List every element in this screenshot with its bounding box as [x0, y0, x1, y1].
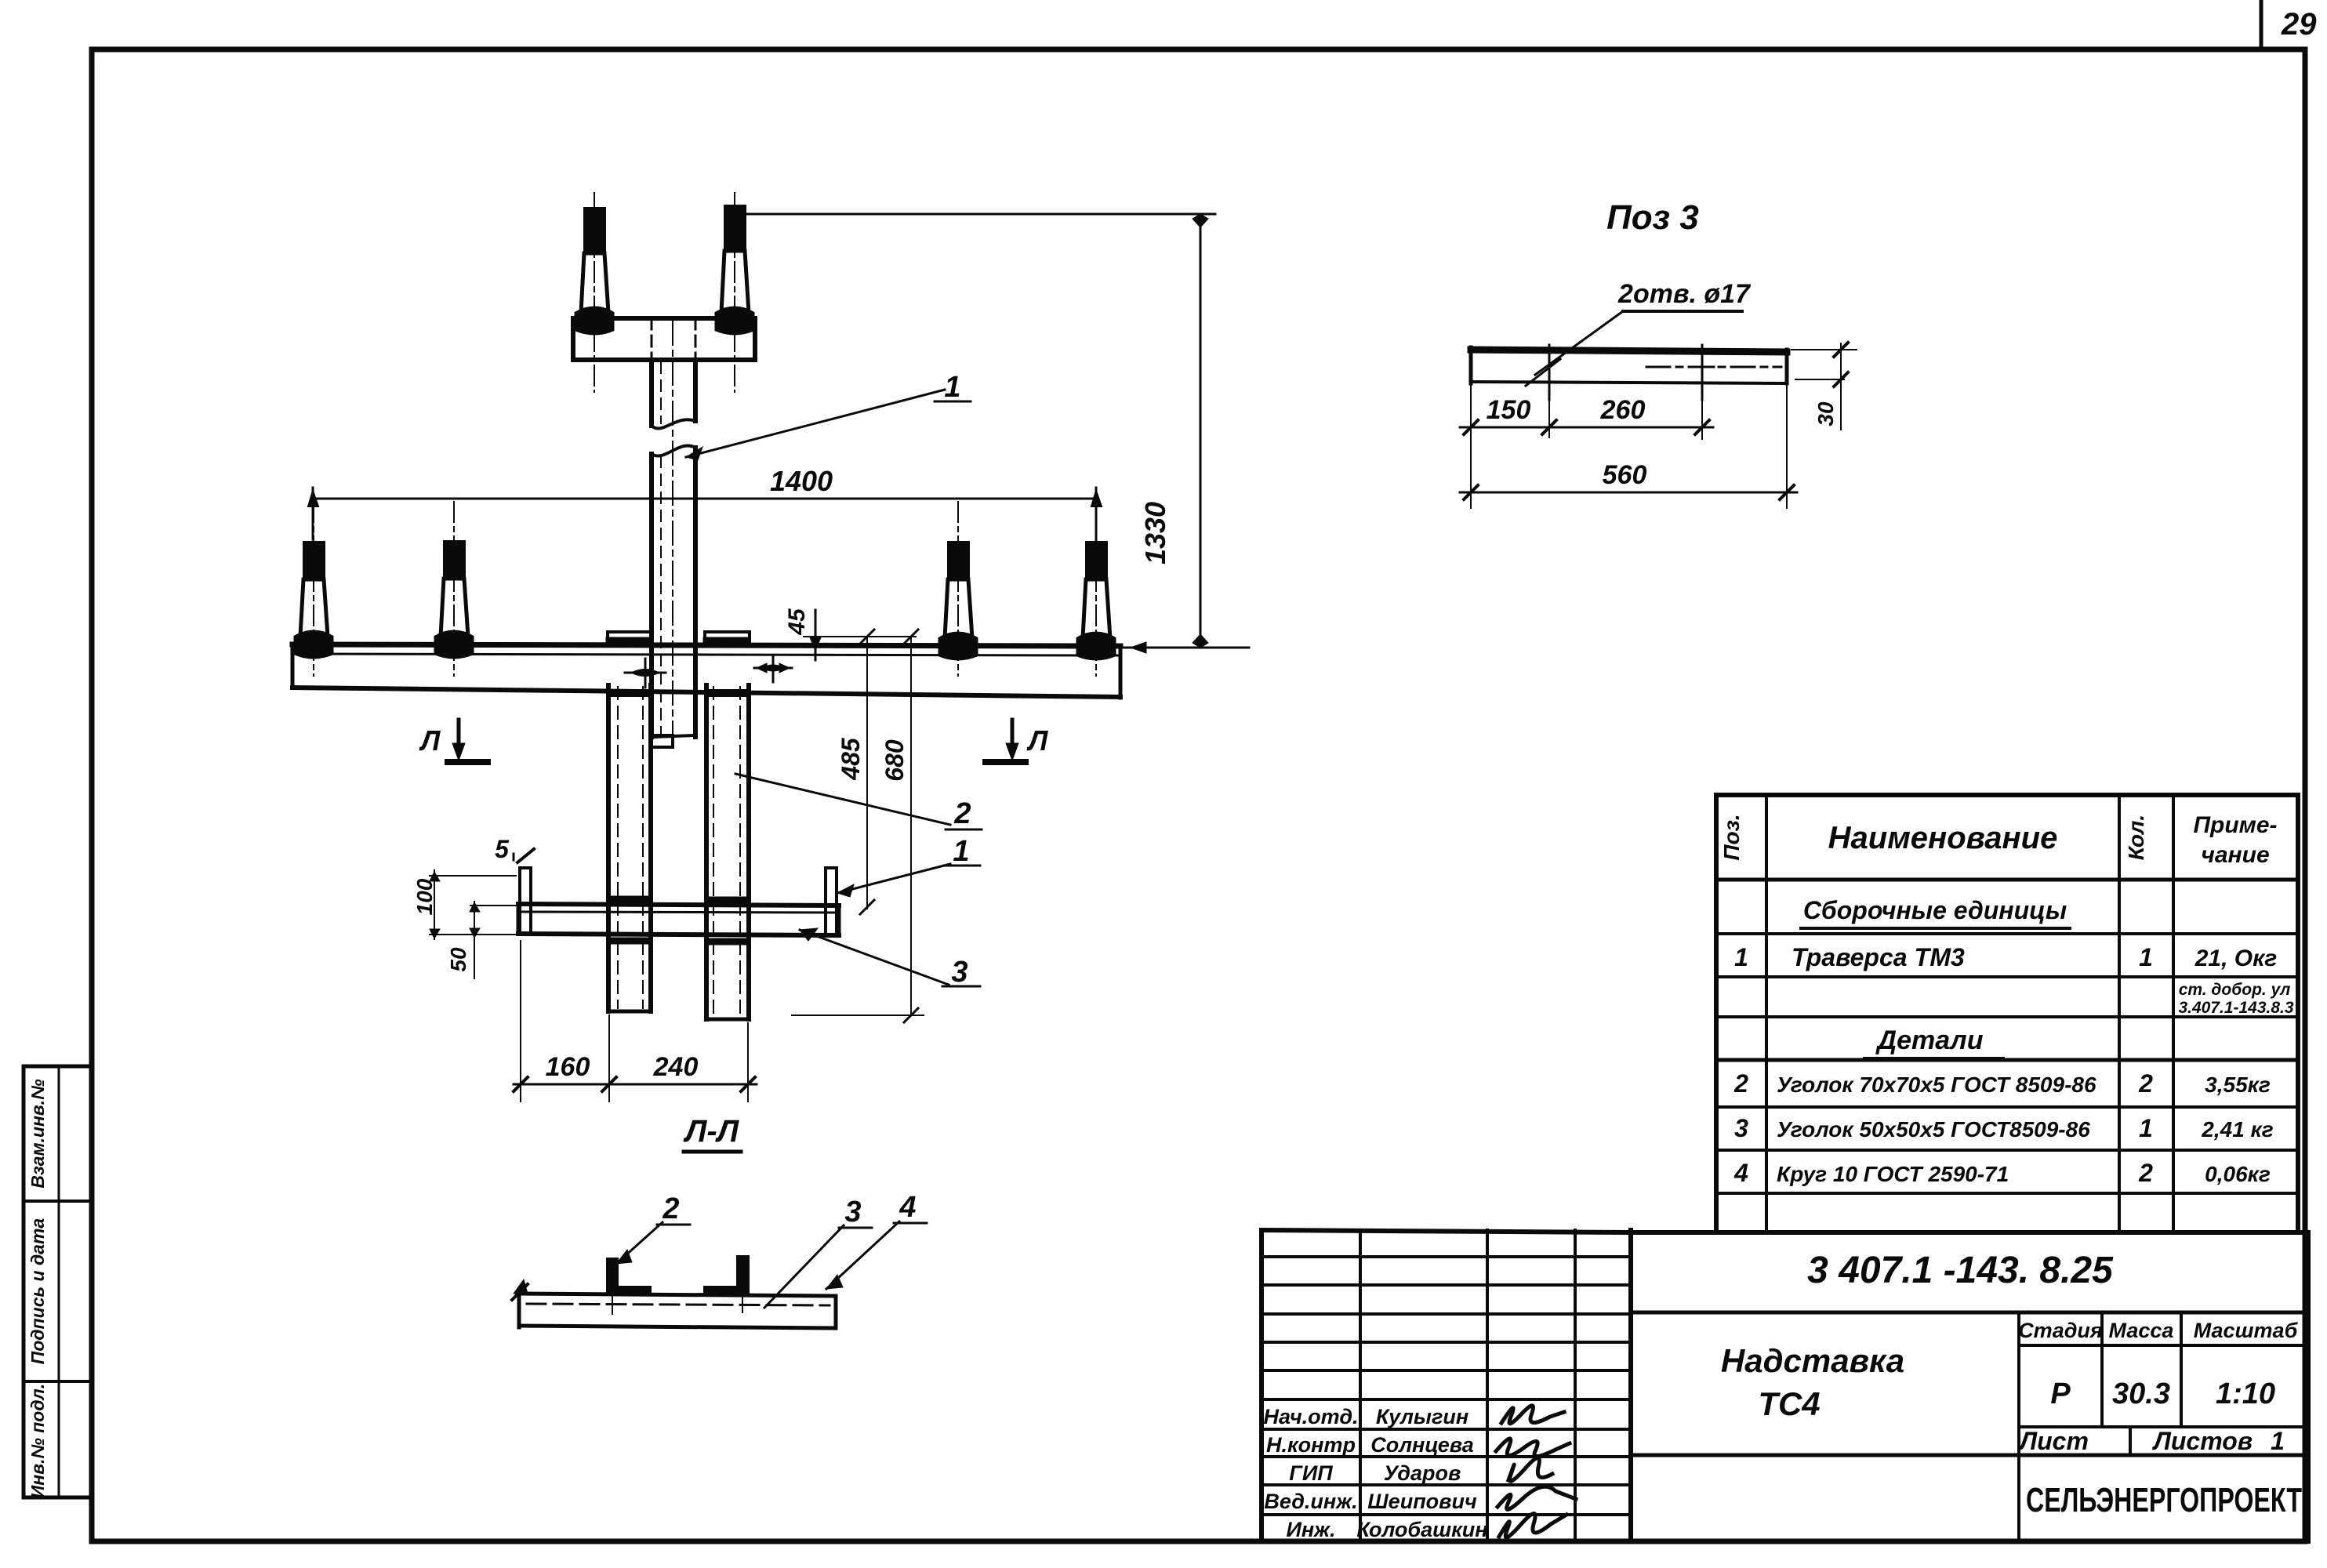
weld serration under beam at right bar: [708, 689, 747, 697]
post centerline: [672, 321, 673, 746]
svg-text:Детали: Детали: [1875, 1025, 1984, 1055]
svg-text:Наименование: Наименование: [1828, 821, 2058, 855]
svg-text:2,41 кг: 2,41 кг: [2201, 1117, 2273, 1142]
svg-text:Вед.инж.: Вед.инж.: [1264, 1490, 1357, 1513]
svg-text:1: 1: [944, 371, 960, 404]
pin item 4 right: [824, 868, 827, 933]
post bottom with notch: [652, 735, 695, 737]
svg-text:Шеипович: Шеипович: [1367, 1490, 1477, 1513]
section leader 2: [616, 1222, 663, 1264]
svg-text:Траверса ТМ3: Траверса ТМ3: [1792, 943, 1965, 971]
svg-text:Уголок 70х70х5 ГОСТ 8509-86: Уголок 70х70х5 ГОСТ 8509-86: [1777, 1073, 2096, 1097]
svg-text:4: 4: [898, 1191, 916, 1224]
cross angle item 3: [518, 904, 839, 906]
dimension 100: [430, 875, 516, 877]
post inner hidden edge: [660, 362, 662, 423]
top bolt right: [716, 193, 753, 392]
svg-text:2: 2: [2138, 1159, 2153, 1187]
svg-text:СЕЛЬЭНЕРГОПРОЕКТ: СЕЛЬЭНЕРГОПРОЕКТ: [2026, 1481, 2302, 1519]
section bar left end tick: [512, 1284, 528, 1300]
svg-text:Стадия: Стадия: [2018, 1319, 2103, 1342]
svg-text:Приме-: Приме-: [2193, 812, 2277, 838]
dimension 1400: [313, 498, 1096, 500]
vertical angle bar item 2 left: [606, 685, 611, 1011]
svg-text:30.3: 30.3: [2112, 1377, 2170, 1410]
svg-text:2: 2: [953, 797, 971, 830]
svg-text:1: 1: [2271, 1427, 2285, 1455]
svg-text:Лист: Лист: [2018, 1427, 2089, 1455]
svg-text:Кол.: Кол.: [2124, 815, 2148, 860]
svg-text:50: 50: [446, 947, 470, 972]
svg-text:3.407.1-143.8.3: 3.407.1-143.8.3: [2178, 999, 2293, 1017]
svg-text:4: 4: [1733, 1159, 1748, 1187]
svg-text:2: 2: [1733, 1069, 1748, 1098]
dimension 45: [804, 636, 916, 637]
svg-text:Поз.: Поз.: [1719, 814, 1744, 860]
svg-text:Н.контр: Н.контр: [1266, 1433, 1356, 1457]
svg-text:150: 150: [1487, 395, 1531, 425]
weld serration at cross angle top on bars: [610, 896, 649, 903]
svg-text:Колобашкин: Колобашкин: [1356, 1518, 1487, 1541]
svg-text:240: 240: [653, 1052, 699, 1082]
svg-text:1400: 1400: [770, 465, 833, 497]
section leader 3: [764, 1225, 844, 1308]
beam bolt 3: [939, 502, 977, 676]
detail bar item 3: [1471, 350, 1787, 352]
post lower segment: [649, 454, 654, 737]
svg-text:Уголок 50х50х5 ГОСТ8509-86: Уголок 50х50х5 ГОСТ8509-86: [1777, 1117, 2090, 1142]
beam bolt 2: [435, 502, 473, 676]
svg-text:1: 1: [1734, 943, 1748, 971]
title block right part grid: [1631, 1232, 2308, 1541]
dimension 1330: [745, 213, 1215, 216]
svg-text:1: 1: [2139, 1114, 2153, 1142]
svg-text:680: 680: [880, 739, 909, 782]
svg-text:2: 2: [662, 1192, 679, 1225]
svg-text:Инж.: Инж.: [1286, 1518, 1335, 1541]
left angle section (item 2): [607, 1258, 618, 1294]
svg-text:3,55кг: 3,55кг: [2205, 1073, 2271, 1097]
beam (traverse TM3, item 1) top chord: [292, 644, 1120, 646]
top plate: [573, 318, 755, 360]
svg-text:ТС4: ТС4: [1758, 1385, 1820, 1422]
svg-text:3: 3: [1734, 1114, 1748, 1142]
leader 1 (pin at cross angle): [837, 864, 950, 893]
svg-text:1:10: 1:10: [2216, 1377, 2275, 1410]
dimension 150 / 260: [1470, 383, 1472, 508]
svg-text:Нач.отд.: Нач.отд.: [1263, 1405, 1358, 1428]
svg-text:3: 3: [844, 1196, 861, 1229]
leader 1 (post): [686, 390, 945, 457]
hole center tick 1: [1548, 345, 1551, 400]
svg-text:30: 30: [1813, 401, 1838, 426]
svg-text:485: 485: [837, 737, 865, 781]
beam bolt 1: [295, 502, 332, 676]
svg-text:Л: Л: [1026, 724, 1049, 757]
hole center mark on beam (left): [625, 672, 666, 674]
dimension 30 (thickness): [1792, 349, 1857, 350]
page number box divider: [2260, 0, 2263, 49]
dimension 160 and 240: [520, 941, 521, 1102]
post hidden edges in plate (dashed): [651, 318, 653, 360]
hole center tick 2: [1701, 345, 1704, 400]
left stamp column frame: [24, 1066, 92, 1497]
svg-text:Сборочные единицы: Сборочные единицы: [1803, 896, 2067, 924]
svg-text:100: 100: [412, 878, 437, 915]
svg-text:Круг 10 ГОСТ 2590-71: Круг 10 ГОСТ 2590-71: [1777, 1162, 2009, 1186]
leader 3 (cross angle): [800, 930, 949, 985]
svg-text:560: 560: [1603, 460, 1647, 490]
svg-text:3 407.1 -143. 8.25: 3 407.1 -143. 8.25: [1807, 1250, 2114, 1291]
pin item 4 left: [518, 868, 521, 933]
svg-text:Солнцева: Солнцева: [1370, 1433, 1474, 1457]
svg-text:ГИП: ГИП: [1289, 1461, 1333, 1485]
svg-text:21, Окг: 21, Окг: [2194, 946, 2278, 971]
svg-text:29: 29: [2281, 7, 2317, 42]
vertical angle bar item 2 right: [704, 685, 709, 1019]
svg-text:45: 45: [784, 608, 810, 636]
svg-text:Взам.инв.№: Взам.инв.№: [27, 1079, 48, 1188]
leader 2 (vertical angle): [735, 774, 950, 825]
dimension 485: [866, 637, 868, 909]
svg-text:Л: Л: [419, 724, 441, 757]
svg-text:0,06кг: 0,06кг: [2205, 1162, 2271, 1186]
svg-text:ст. добор. ул: ст. добор. ул: [2179, 981, 2291, 999]
post (stand), upper segment with break: [649, 360, 654, 426]
svg-text:Масса: Масса: [2109, 1319, 2174, 1342]
svg-text:Поз 3: Поз 3: [1606, 198, 1699, 237]
dimension 50: [470, 905, 518, 906]
right angle section (item 2): [737, 1256, 749, 1294]
svg-text:260: 260: [1600, 395, 1646, 425]
pad left (top of angle item 2): [608, 632, 651, 644]
svg-text:5: 5: [495, 835, 510, 863]
weld serration under beam at left bar: [610, 689, 649, 697]
section leader 4: [826, 1221, 899, 1289]
svg-text:2отв. ø17: 2отв. ø17: [1617, 279, 1752, 309]
svg-text:Инв.№ подл.: Инв.№ подл.: [27, 1384, 48, 1498]
dimension 560: [1786, 383, 1788, 508]
parts table grid: [1716, 795, 2298, 1232]
svg-text:Р: Р: [2050, 1377, 2071, 1410]
svg-text:Масштаб: Масштаб: [2194, 1319, 2299, 1342]
svg-text:Кулыгин: Кулыгин: [1376, 1405, 1468, 1428]
svg-text:Ударов: Ударов: [1384, 1461, 1461, 1485]
detail centerline: [1646, 366, 1781, 368]
dimension 680: [910, 637, 912, 1015]
title block signature grid: [1262, 1230, 1631, 1541]
hole center mark on beam (right): [754, 667, 792, 670]
svg-text:чание: чание: [2201, 842, 2269, 868]
svg-text:3: 3: [951, 956, 967, 989]
section bar (item 3 angle, horizontal leg): [519, 1294, 836, 1296]
svg-text:Подпись и дата: Подпись и дата: [27, 1218, 48, 1365]
weld serration at cross angle bottom on bars: [610, 938, 649, 945]
svg-text:1: 1: [2139, 943, 2153, 971]
svg-text:1330: 1330: [1139, 502, 1171, 564]
beam bolt 4: [1077, 502, 1115, 676]
top bolt left: [575, 193, 613, 392]
svg-text:Надставка: Надставка: [1721, 1342, 1904, 1379]
svg-text:160: 160: [546, 1052, 590, 1082]
svg-text:2: 2: [2138, 1069, 2153, 1098]
svg-text:Листов: Листов: [2152, 1427, 2253, 1455]
pad right (top of angle item 2): [705, 632, 750, 644]
svg-text:1: 1: [953, 835, 969, 868]
svg-text:Л-Л: Л-Л: [683, 1114, 740, 1149]
